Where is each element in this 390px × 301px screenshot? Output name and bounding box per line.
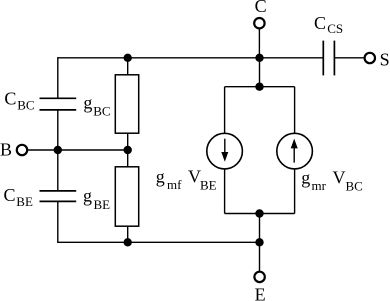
wire resistor chain middle [127,133,129,167]
svg-text:V: V [333,167,346,187]
wire right source bottom lead [294,168,296,213]
junction top rail / collector branch [255,54,263,62]
terminal B [17,145,27,155]
resistor g_BC [115,75,138,133]
svg-text:C: C [314,13,326,33]
wire left source bottom lead [224,168,226,213]
label C_CS [314,13,343,36]
wire top rail [58,57,324,59]
svg-text:BC: BC [17,97,34,112]
capacitor C_CS [323,41,334,76]
wire join to bottom rail [259,214,261,243]
wire emitter branch [259,242,261,271]
label g_BC [83,92,110,118]
svg-text:g: g [83,186,92,206]
svg-text:BC: BC [346,178,363,193]
svg-text:C: C [4,89,16,109]
svg-text:B: B [0,140,12,160]
junction base rail / resistor chain [124,146,132,154]
label C_BE [4,185,33,209]
junction bottom rail / resistor chain [124,238,132,246]
wire left vertical upper [57,57,59,98]
junction top rail / resistor chain [124,54,132,62]
label g_BE [83,186,110,212]
label g_mf V_BE [156,167,217,193]
wire collector branch [258,28,260,58]
wire left vertical bottom [57,201,59,242]
wire source bottom connector [225,213,295,215]
current source g_mr V_BC [277,133,313,169]
capacitor C_BE [40,191,77,202]
svg-text:BE: BE [16,194,33,209]
wire left vertical mid [57,110,59,150]
wire resistor chain top [127,58,129,75]
label C_BC [4,89,34,113]
terminal S [365,53,375,63]
svg-text:g: g [156,167,165,187]
svg-text:C: C [4,185,16,205]
wire source top connector [225,86,295,88]
svg-text:BC: BC [93,104,110,119]
resistor g_BE [115,167,138,226]
junction bottom rail / emitter branch [255,238,263,246]
wire resistor chain bottom [127,226,129,242]
wire left vertical lower-mid [57,150,59,191]
wire left source top lead [224,87,226,134]
wire center down to split [259,58,261,87]
svg-text:CS: CS [327,21,343,36]
svg-text:BE: BE [94,197,111,212]
svg-text:mf: mf [167,177,182,192]
label g_mr V_BC [301,167,363,193]
junction source join [255,209,263,217]
wire bottom rail [57,241,259,243]
svg-text:mr: mr [312,178,327,193]
junction source split [255,83,263,91]
svg-text:BE: BE [200,178,217,193]
junction base rail / capacitor chain [54,146,62,154]
terminal C [254,18,264,28]
wire C_CS to S [334,57,364,59]
terminal E [254,272,264,282]
svg-text:S: S [380,49,390,69]
capacitor C_BC [40,98,77,110]
svg-text:g: g [301,167,310,187]
svg-text:E: E [255,285,266,301]
wire right source top lead [294,87,296,134]
wire base B [27,149,128,151]
current source g_mf V_BE [207,133,243,169]
svg-text:C: C [255,0,267,16]
svg-text:g: g [83,92,92,112]
